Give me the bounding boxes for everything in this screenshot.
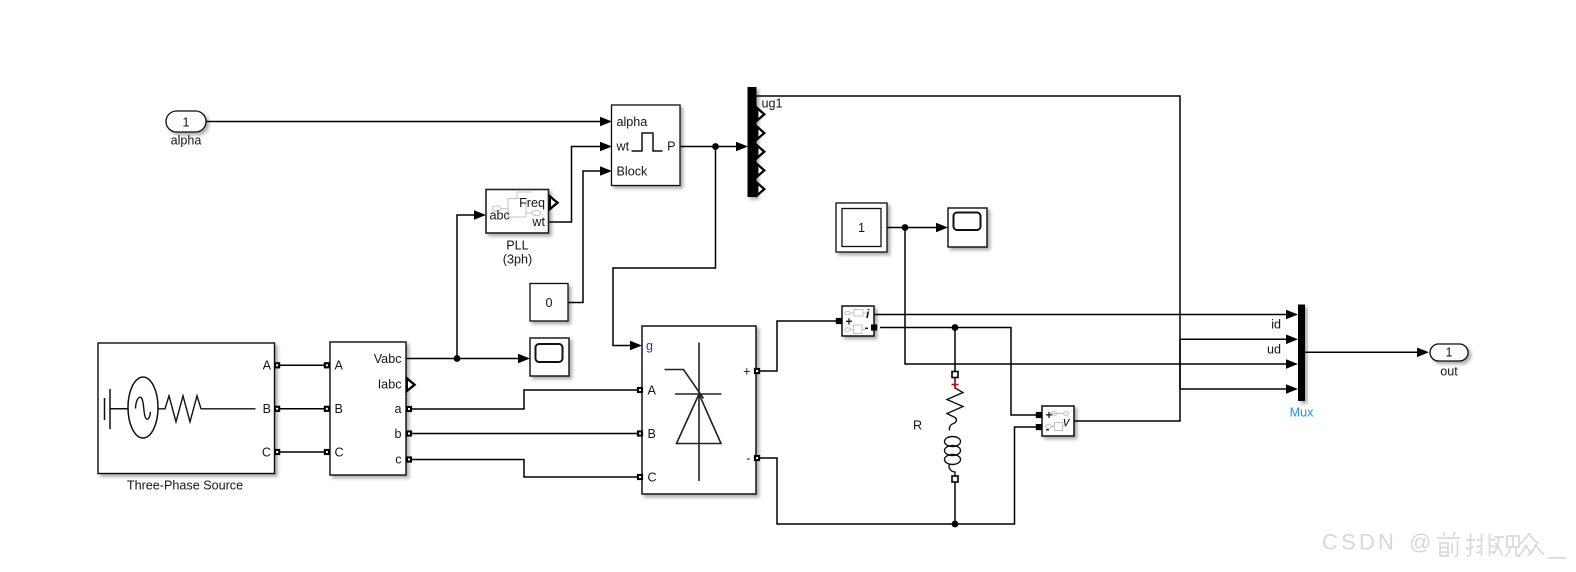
svg-text:Iabc: Iabc xyxy=(378,378,402,392)
svg-text:ud: ud xyxy=(1267,343,1281,357)
svg-text:R: R xyxy=(913,419,922,433)
svg-text:wt: wt xyxy=(616,140,630,154)
svg-text:B: B xyxy=(648,427,656,441)
svg-text:abc: abc xyxy=(490,209,510,223)
svg-text:-: - xyxy=(865,321,869,335)
svg-text:1: 1 xyxy=(1445,346,1452,360)
svg-text:(3ph): (3ph) xyxy=(503,253,532,267)
svg-text:Three-Phase Source: Three-Phase Source xyxy=(127,479,243,493)
svg-text:+: + xyxy=(1046,408,1053,422)
svg-text:b: b xyxy=(394,427,401,441)
svg-text:alpha: alpha xyxy=(617,115,648,129)
svg-text:c: c xyxy=(395,453,401,467)
svg-text:Freq: Freq xyxy=(519,196,545,210)
svg-text:1: 1 xyxy=(858,221,865,235)
svg-text:-: - xyxy=(1046,422,1050,436)
svg-text:0: 0 xyxy=(545,296,552,310)
svg-text:out: out xyxy=(1440,365,1458,379)
svg-text:A: A xyxy=(263,359,272,373)
svg-text:+: + xyxy=(846,315,853,329)
svg-text:id: id xyxy=(1271,318,1281,332)
svg-text:CSDN: CSDN xyxy=(1322,530,1397,555)
svg-text:1: 1 xyxy=(182,116,189,130)
svg-text:g: g xyxy=(646,339,653,353)
svg-text:ug1: ug1 xyxy=(762,97,783,111)
svg-text:C: C xyxy=(262,446,271,460)
svg-text:a: a xyxy=(394,402,401,416)
svg-text:Block: Block xyxy=(617,165,648,179)
svg-text:C: C xyxy=(648,471,657,485)
svg-text:wt: wt xyxy=(531,215,545,229)
svg-text:@: @ xyxy=(1409,530,1431,555)
svg-text:C: C xyxy=(335,446,344,460)
svg-text:P: P xyxy=(667,140,675,154)
svg-text:A: A xyxy=(335,359,344,373)
svg-text:B: B xyxy=(263,402,271,416)
svg-text:Vabc: Vabc xyxy=(374,352,402,366)
svg-text:PLL: PLL xyxy=(506,239,528,253)
svg-text:A: A xyxy=(648,384,657,398)
svg-text:-: - xyxy=(746,452,750,466)
svg-text:+: + xyxy=(743,365,750,379)
svg-text:Mux: Mux xyxy=(1290,406,1314,420)
svg-text:B: B xyxy=(335,402,343,416)
svg-text:alpha: alpha xyxy=(171,134,202,148)
